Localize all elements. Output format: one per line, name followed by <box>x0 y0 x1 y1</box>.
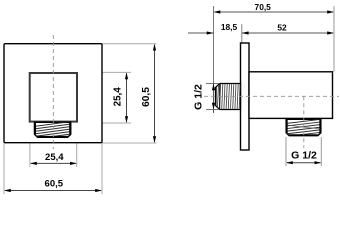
svg-text:G 1/2: G 1/2 <box>192 84 204 110</box>
inner square <box>30 73 77 122</box>
threaded stub (front view) <box>33 121 72 141</box>
svg-text:G 1/2: G 1/2 <box>291 149 317 161</box>
dimension 60,5 right (vertical) <box>141 44 156 143</box>
svg-text:25,4: 25,4 <box>45 152 64 163</box>
extension line inner bottom <box>77 122 131 124</box>
vertical centerline (side view, down pipe) <box>303 96 305 148</box>
bottom G 1/2 dimension extension lines <box>285 137 287 166</box>
outer square plate <box>4 44 102 143</box>
dimension 25,4 right (vertical) <box>112 72 128 123</box>
dimension 25,4 bottom <box>30 152 77 165</box>
svg-text:52: 52 <box>277 23 287 33</box>
extension line left (x=213.5) <box>213 6 215 84</box>
dimension 18,5 <box>188 22 237 35</box>
svg-text:60,5: 60,5 <box>141 87 152 107</box>
centerline (front view) <box>52 35 54 149</box>
extension line middle (x=241.8) <box>241 24 243 43</box>
extension line inner right vertical <box>76 142 78 167</box>
dimension 52 <box>242 23 334 35</box>
svg-text:25,4: 25,4 <box>112 87 123 107</box>
G 1/2 stub dimension line <box>212 84 215 114</box>
extension line top right of square <box>102 43 157 45</box>
body (side view) <box>249 72 333 119</box>
bottom threaded pipe (side view, G 1/2) <box>285 119 322 139</box>
dimension 60,5 bottom <box>4 178 102 192</box>
G 1/2 stub dimension extension lines <box>206 83 220 85</box>
extension line bottom right <box>102 142 157 144</box>
extension line bottom right vertical <box>101 143 103 194</box>
svg-text:18,5: 18,5 <box>221 22 238 32</box>
extension line inner top <box>77 71 131 73</box>
extension line bottom left vertical <box>3 143 5 194</box>
bottom G 1/2 dimension line (below label, arrows pointing outward) <box>286 161 321 164</box>
svg-text:60,5: 60,5 <box>45 178 64 189</box>
extension line inner left vertical <box>29 142 31 167</box>
extension line right (x=334) <box>333 6 335 72</box>
wall plate (side view) <box>241 43 250 150</box>
dimension 70,5 <box>214 2 335 13</box>
svg-text:70,5: 70,5 <box>255 2 272 12</box>
horizontal centerline (side view) <box>204 95 339 97</box>
threaded stub left (side view, G 1/2) <box>216 84 241 110</box>
